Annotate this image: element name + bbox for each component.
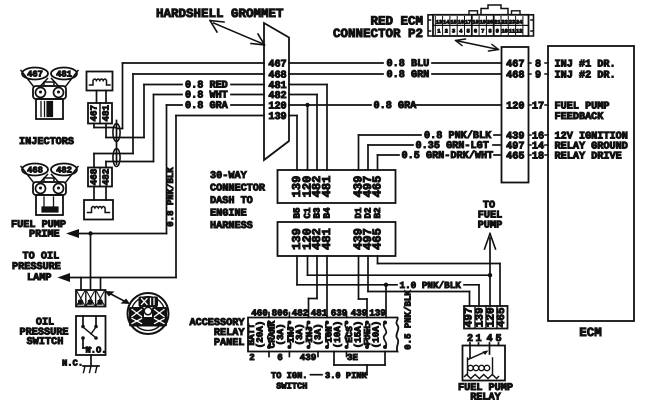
30-way connector dash side (bottom half) — [278, 222, 396, 256]
svg-text:482: 482 — [292, 308, 309, 319]
stub 639 feed — [346, 313, 348, 318]
svg-text:8: 8 — [535, 59, 541, 70]
fuel pump relay connector (497 139 120 465) — [464, 306, 509, 329]
svg-text:806: 806 — [272, 308, 289, 319]
svg-text:468: 468 — [506, 70, 524, 81]
fuel pump relay box — [463, 346, 506, 381]
arrow to hardshell grommet (double-headed) — [210, 21, 265, 46]
label OIL PRESSURE SWITCH — [20, 318, 69, 349]
wire through splice ovals — [116, 121, 118, 165]
wire 439 - 30-way to ECM pin 16, label 0.8 PNK/BLK — [359, 130, 502, 170]
wire - prime junction down to oil pressure switch — [90, 234, 92, 291]
relay resistor — [465, 375, 499, 379]
svg-text:B4: B4 — [322, 207, 333, 219]
svg-text:5: 5 — [467, 29, 470, 35]
fuse ECS (15A) circuit — [344, 321, 369, 350]
svg-text:460: 460 — [251, 308, 268, 319]
stub CRANK output, label 6 — [277, 352, 289, 364]
injector #2 solenoid coil box — [84, 200, 113, 220]
label 30-WAY CONNECTOR DASH TO ENGINE HARNESS — [210, 171, 266, 232]
svg-text:SWITCH: SWITCH — [27, 337, 64, 348]
svg-text:INJ #2 DR.: INJ #2 DR. — [555, 70, 616, 81]
svg-text:11: 11 — [509, 29, 515, 35]
wire 481 - 30-way to INJ fuse — [326, 256, 328, 318]
svg-text:HARNESS: HARNESS — [210, 221, 253, 232]
arrow connector P2 to ECM pinout (double-headed) — [456, 39, 499, 51]
svg-text:12: 12 — [516, 29, 522, 35]
svg-text:PRIME: PRIME — [29, 230, 60, 241]
svg-text:9: 9 — [496, 29, 499, 35]
svg-text:3.0 PINK: 3.0 PINK — [325, 371, 367, 381]
svg-text:PUMP: PUMP — [478, 221, 502, 232]
label TO IGN. SWITCH — [271, 371, 308, 392]
svg-text:(10A): (10A) — [371, 321, 382, 349]
svg-text:18: 18 — [532, 151, 544, 162]
svg-text:22: 22 — [502, 20, 508, 26]
fuse IGN (10A) circuit — [324, 321, 349, 350]
svg-text:CONNECTOR: CONNECTOR — [210, 184, 266, 195]
wire 468 - grommet to injector #2 pin 468 — [94, 74, 264, 168]
svg-text:LAMP: LAMP — [27, 273, 51, 284]
svg-text:482: 482 — [101, 169, 112, 186]
svg-text:INJECTORS: INJECTORS — [19, 137, 74, 148]
svg-text:(3A): (3A) — [313, 323, 324, 345]
svg-text:467: 467 — [89, 105, 100, 122]
wire 120 - grommet to fuel pump prime, label 0.8 GRA — [167, 101, 265, 233]
wire - coil box 1 to connector 467/481 legs — [97, 91, 107, 104]
svg-text:481: 481 — [311, 308, 328, 319]
relay pin numbers 2 1 4 5 — [467, 334, 502, 345]
svg-text:481: 481 — [320, 228, 334, 250]
ground symbol — [83, 366, 99, 373]
svg-text:465: 465 — [371, 176, 385, 198]
wire 481 - grommet to injector #1 pin 481, label 0.8 RED — [106, 81, 264, 138]
svg-text:120: 120 — [268, 101, 286, 112]
svg-text:465: 465 — [371, 228, 385, 250]
svg-text:23: 23 — [509, 20, 515, 26]
wire - connector 468/482 legs to coil box 2 — [94, 187, 106, 201]
svg-text:(3A): (3A) — [275, 323, 286, 345]
svg-text:CONNECTOR P2: CONNECTOR P2 — [333, 27, 423, 41]
svg-text:0.5 GRN-DRK/WHT: 0.5 GRN-DRK/WHT — [402, 150, 494, 162]
svg-text:0.8 GRA: 0.8 GRA — [185, 101, 229, 112]
svg-text:481: 481 — [101, 104, 112, 121]
svg-text:19: 19 — [480, 20, 486, 26]
svg-text:21: 21 — [494, 20, 500, 26]
wire - oil switch connector legs — [81, 278, 101, 291]
svg-text:18: 18 — [472, 20, 478, 26]
wire 482 - grommet to injector #2 pin 482, label 0.8 WHT — [106, 91, 264, 168]
wire 465 - 30-way to ECM pin 18, label 0.5 GRN-DRK/WHT — [378, 150, 502, 170]
svg-text:10: 10 — [502, 29, 508, 35]
ECM pin numbers 8 9 17 16 14 18 — [529, 59, 549, 162]
svg-text:N.O.: N.O. — [85, 346, 106, 356]
svg-text:481: 481 — [56, 70, 72, 80]
label FUEL PUMP RELAY — [458, 383, 513, 404]
wire 465 - 30-way to fuel pump relay 465 — [378, 256, 501, 306]
connector 467/481 (injector #1 harness connector) — [88, 103, 112, 124]
svg-text:FEEDBACK: FEEDBACK — [555, 112, 605, 123]
svg-text:3: 3 — [452, 29, 455, 35]
wire - ignition feed bus under panel — [334, 352, 385, 366]
fuse CRANK (3A) circuit — [266, 320, 291, 349]
svg-text:3E: 3E — [347, 352, 359, 363]
svg-text:FUEL PUMP: FUEL PUMP — [555, 101, 610, 112]
label ACCESSORY RELAY PANEL — [189, 318, 245, 349]
svg-text:0.8 WHT: 0.8 WHT — [185, 91, 228, 102]
svg-text:439: 439 — [300, 352, 317, 363]
svg-text:139: 139 — [268, 112, 286, 123]
svg-text:468: 468 — [89, 168, 100, 185]
svg-text:467: 467 — [506, 59, 524, 70]
svg-text:15: 15 — [450, 20, 456, 26]
label RED ECM CONNECTOR P2 — [333, 15, 423, 42]
relay switch contact — [468, 351, 489, 360]
svg-text:13: 13 — [436, 20, 442, 26]
wire - junction down to FUEL fuse — [385, 285, 387, 318]
stub 460 feed — [268, 313, 270, 318]
wire 139 - grommet to oil pressure lamp circuit, label 0.8 PNK/BLK (vertical) — [166, 116, 264, 278]
fuse INJ (3A) circuit — [304, 321, 329, 350]
svg-text:2: 2 — [249, 352, 255, 363]
wire 439 - 30-way to ECS fuse — [359, 256, 368, 318]
stub 806 feed — [288, 313, 290, 318]
label TO OIL PRESSURE LAMP with arrow — [12, 252, 70, 285]
svg-text:481: 481 — [320, 176, 334, 198]
junction node 120 / fuel pump feed — [488, 273, 492, 277]
wire 468 - grommet to ECM pin 9, label 0.8 GRN — [289, 70, 502, 81]
svg-text:6: 6 — [474, 29, 477, 35]
svg-text:8: 8 — [488, 29, 491, 35]
svg-text:INJ #1 DR.: INJ #1 DR. — [555, 59, 616, 70]
svg-text:2: 2 — [445, 29, 448, 35]
splice grommet oval 1 — [113, 124, 120, 142]
round connector face view — [128, 293, 169, 334]
wire - switch to ground — [90, 355, 92, 366]
svg-text:B5: B5 — [292, 207, 303, 219]
svg-text:465: 465 — [496, 307, 508, 327]
accessory relay panel box (torn right edge) — [248, 318, 398, 352]
injector #1 solenoid coil box — [87, 72, 113, 91]
ECM function labels — [555, 59, 628, 162]
fuse INJ (3A) circuit — [286, 321, 311, 350]
hardshell grommet (30-way pass-through) — [264, 23, 289, 160]
wire 482 - 30-way to INJ fuse — [309, 256, 318, 318]
svg-text:467: 467 — [268, 59, 286, 70]
svg-text:0.8 GRN: 0.8 GRN — [387, 70, 430, 81]
wire 467 - grommet to injector #1 pin 467 — [94, 63, 264, 129]
svg-text:20: 20 — [487, 20, 493, 26]
junction node 139 / fuel fuse — [384, 283, 388, 287]
wire 120 branch down to 30-way connector — [307, 105, 309, 170]
svg-text:(10A): (10A) — [332, 321, 343, 349]
svg-text:PRESSURE: PRESSURE — [12, 262, 61, 273]
wire 120 - 30-way to fuel pump relay — [308, 256, 491, 275]
svg-text:SWITCH: SWITCH — [276, 382, 307, 392]
svg-text:120: 120 — [506, 101, 524, 112]
svg-text:139: 139 — [369, 308, 386, 319]
svg-text:HARDSHELL GROMMET: HARDSHELL GROMMET — [156, 7, 284, 21]
ECM connector pin column — [502, 47, 529, 183]
fuse panel top circuit labels 460 806 482 481 639 439 139 — [251, 308, 386, 319]
svg-text:N.C.: N.C. — [62, 359, 83, 369]
svg-text:465: 465 — [506, 151, 524, 162]
svg-text:0.5 PNK/BLK: 0.5 PNK/BLK — [404, 290, 414, 350]
svg-text:17: 17 — [532, 101, 544, 112]
relay pin legs — [470, 343, 499, 358]
stub IGN output — [346, 352, 348, 357]
stub BATT output, label 2 — [249, 352, 269, 364]
wire/label 3.0 PINK — [311, 365, 368, 381]
svg-text:1: 1 — [437, 29, 440, 35]
wire 497 - 30-way to ECM pin 14, label 0.35 GRN-LGT — [368, 141, 502, 170]
svg-text:RELAY: RELAY — [470, 393, 501, 404]
svg-text:639: 639 — [331, 308, 348, 319]
connector 468/482 (injector #2 harness connector) — [88, 168, 112, 187]
svg-text:B2: B2 — [372, 207, 383, 218]
junction node 120 / 30-way — [305, 103, 309, 107]
wire 482 - grommet down to 30-way connector — [289, 95, 317, 171]
svg-text:482: 482 — [56, 166, 72, 176]
svg-text:24: 24 — [516, 20, 522, 26]
label TO FUEL PUMP — [478, 201, 502, 232]
svg-text:14: 14 — [443, 20, 449, 26]
svg-text:0.8 PNK/BLK: 0.8 PNK/BLK — [166, 167, 176, 227]
red ECM connector P2 (pictorial 24-pin) — [428, 5, 534, 36]
svg-text:17: 17 — [465, 20, 471, 26]
svg-text:468: 468 — [27, 166, 43, 176]
svg-text:1.0 PNK/BLK: 1.0 PNK/BLK — [400, 280, 462, 291]
svg-text:DASH TO: DASH TO — [210, 196, 253, 207]
svg-text:ECM: ECM — [579, 326, 602, 340]
fuse FUEL (10A) circuit — [362, 321, 387, 350]
30-way connector engine-harness side (top half) — [278, 170, 396, 203]
oil pressure switch body with contacts — [76, 316, 107, 356]
svg-text:TO IGN.: TO IGN. — [271, 371, 308, 381]
wire - fuel pump prime feed — [79, 233, 167, 235]
label FUEL PUMP PRIME with arrow — [11, 220, 79, 241]
svg-text:9: 9 — [535, 70, 541, 81]
svg-text:ENGINE: ENGINE — [210, 209, 247, 220]
wire 139 - grommet down to 30-way connector — [289, 116, 297, 171]
svg-text:RELAY DRIVE: RELAY DRIVE — [555, 151, 622, 162]
wire 120 - grommet to ECM pin 17, label 0.8 GRA — [289, 101, 502, 112]
svg-text:(20A): (20A) — [255, 321, 266, 349]
svg-text:468: 468 — [268, 70, 286, 81]
svg-text:0.8 BLU: 0.8 BLU — [387, 59, 430, 70]
wire 139 - 30-way to fuse panel, label 1.0 PNK/BLK — [297, 256, 479, 306]
svg-text:0.8 GRA: 0.8 GRA — [374, 101, 418, 112]
wire 497 - 30-way to fuel pump relay 497 — [368, 256, 470, 306]
double arrow - connector to round connector view — [105, 291, 130, 304]
svg-text:16: 16 — [458, 20, 464, 26]
wire 467 - grommet to ECM pin 8, label 0.8 BLU — [289, 59, 502, 70]
svg-text:467: 467 — [27, 70, 43, 80]
svg-text:30-WAY: 30-WAY — [210, 171, 248, 182]
injector #1 symbol (pictorial, circuits 467/481) — [21, 68, 78, 120]
svg-text:PANEL: PANEL — [214, 338, 245, 349]
wire 481 - grommet down to 30-way connector — [289, 85, 327, 171]
svg-text:6: 6 — [277, 352, 283, 363]
30-way connector pin labels B5 C1 B3 B4 D1 D2 B2 — [292, 207, 384, 219]
wire - junction to fuel pump (arrow) and relay 120 — [485, 234, 496, 307]
ECM box — [548, 46, 634, 321]
svg-text:TO OIL: TO OIL — [23, 252, 60, 263]
stub INJ output, label 439 — [300, 352, 318, 364]
svg-text:439: 439 — [351, 308, 368, 319]
wire - oil pressure lamp line — [70, 277, 176, 279]
oil pressure switch connector (3-way) — [76, 290, 106, 307]
svg-text:7: 7 — [481, 29, 484, 35]
relay coil — [468, 358, 493, 375]
junction node prime/oil-switch — [88, 231, 92, 235]
splice grommet oval 2 — [113, 149, 120, 167]
svg-text:482: 482 — [268, 91, 286, 102]
injector #2 symbol (pictorial, circuits 468/482) — [21, 164, 78, 216]
svg-text:4: 4 — [459, 29, 462, 35]
fuse BATT (20A) circuit — [246, 321, 271, 350]
